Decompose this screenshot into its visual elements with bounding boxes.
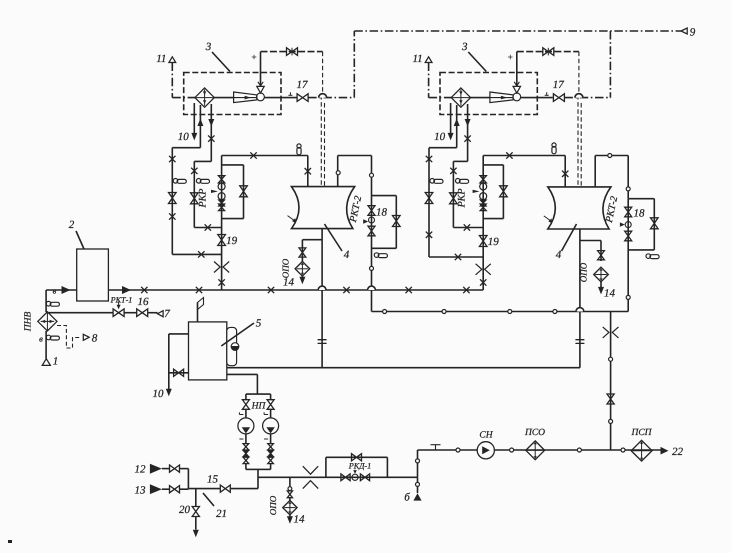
svg-text:б: б bbox=[404, 492, 410, 504]
svg-text:19: 19 bbox=[226, 235, 238, 247]
svg-text:НП: НП bbox=[251, 402, 267, 412]
svg-text:4: 4 bbox=[556, 249, 562, 261]
svg-text:8: 8 bbox=[92, 333, 98, 345]
svg-text:ПСО: ПСО bbox=[524, 428, 545, 438]
svg-text:21: 21 bbox=[216, 508, 227, 520]
svg-text:+: + bbox=[251, 52, 256, 62]
svg-text:5: 5 bbox=[256, 318, 262, 330]
svg-text:ОПО: ОПО bbox=[268, 495, 278, 515]
svg-text:ОПО: ОПО bbox=[281, 258, 291, 278]
svg-text:в: в bbox=[39, 334, 43, 344]
svg-text:9: 9 bbox=[690, 27, 696, 39]
svg-text:СН: СН bbox=[479, 431, 493, 441]
svg-text:РКД-1: РКД-1 bbox=[348, 461, 371, 470]
svg-text:4: 4 bbox=[344, 249, 350, 261]
svg-text:7: 7 bbox=[164, 308, 170, 320]
svg-text:ПНВ: ПНВ bbox=[24, 312, 34, 333]
svg-text:РКТ-1: РКТ-1 bbox=[110, 296, 133, 305]
svg-text:3: 3 bbox=[205, 41, 212, 53]
svg-text:11: 11 bbox=[156, 53, 166, 65]
svg-text:в: в bbox=[53, 286, 57, 296]
svg-text:3: 3 bbox=[461, 41, 468, 53]
svg-text:14: 14 bbox=[283, 277, 295, 289]
svg-text:16: 16 bbox=[138, 296, 150, 308]
svg-text:19: 19 bbox=[488, 236, 500, 248]
svg-text:15: 15 bbox=[207, 474, 219, 486]
svg-text:2: 2 bbox=[69, 219, 75, 231]
svg-text:17: 17 bbox=[297, 79, 309, 91]
svg-text:14: 14 bbox=[604, 288, 616, 300]
svg-text:18: 18 bbox=[376, 207, 388, 219]
svg-text:11: 11 bbox=[413, 53, 423, 65]
svg-text:ПСП: ПСП bbox=[630, 428, 652, 438]
svg-text:1: 1 bbox=[53, 356, 59, 368]
svg-text:14: 14 bbox=[294, 514, 306, 526]
svg-text:17: 17 bbox=[553, 79, 565, 91]
svg-text:+: + bbox=[508, 52, 513, 62]
svg-text:ОПО: ОПО bbox=[579, 262, 589, 282]
svg-text:18: 18 bbox=[634, 208, 646, 220]
svg-text:РКР: РКР bbox=[456, 189, 467, 209]
svg-text:10: 10 bbox=[153, 388, 165, 400]
svg-text:20: 20 bbox=[179, 504, 191, 516]
svg-text:22: 22 bbox=[672, 446, 684, 458]
svg-text:12: 12 bbox=[135, 464, 147, 476]
svg-text:10: 10 bbox=[434, 131, 446, 143]
svg-text:10: 10 bbox=[178, 131, 190, 143]
svg-text:13: 13 bbox=[135, 485, 147, 497]
svg-text:РКР: РКР bbox=[197, 189, 208, 209]
